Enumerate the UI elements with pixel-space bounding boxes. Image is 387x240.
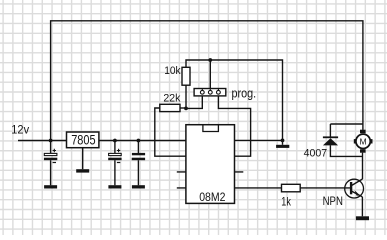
- svg-text:10k: 10k: [164, 65, 181, 77]
- svg-text:08M2: 08M2: [199, 191, 225, 204]
- svg-text:7805: 7805: [71, 133, 95, 148]
- svg-text:NPN: NPN: [323, 196, 343, 208]
- svg-text:prog.: prog.: [232, 86, 257, 100]
- svg-text:22k: 22k: [163, 92, 180, 104]
- svg-text:4007: 4007: [304, 147, 328, 159]
- svg-text:12v: 12v: [11, 123, 29, 137]
- svg-text:1k: 1k: [281, 195, 291, 209]
- svg-text:M: M: [360, 136, 367, 146]
